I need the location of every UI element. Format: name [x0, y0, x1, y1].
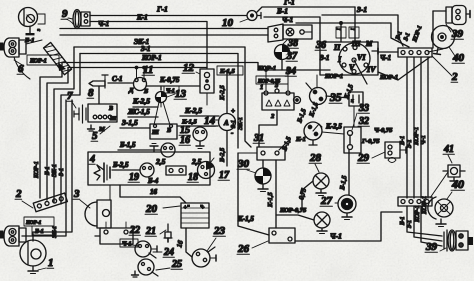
- relay 11: [134, 66, 147, 90]
- svg-text:з: з: [36, 29, 42, 32]
- label Б-1,5 rot (27): [339, 174, 349, 191]
- fuse box К: [349, 92, 363, 106]
- svg-text:З-1,5: З-1,5: [121, 118, 138, 127]
- wire 30 down: [238, 153, 269, 235]
- label ЭК-1,5: [127, 108, 150, 116]
- ignition plate: [320, 42, 378, 75]
- leader 33: [352, 113, 357, 130]
- horn 40 top: [432, 26, 455, 55]
- label 15: [179, 125, 190, 136]
- svg-text:Ч-1: Ч-1: [98, 20, 109, 28]
- svg-text:К-2,5: К-2,5: [219, 85, 226, 101]
- switch 23: [192, 247, 216, 267]
- label 32: [358, 116, 369, 127]
- label ЭК-1: [134, 38, 149, 46]
- label Г-1: [156, 5, 168, 14]
- wire 16 battery: [120, 185, 186, 203]
- switch box 30: [238, 141, 288, 160]
- svg-text:2: 2: [451, 71, 458, 83]
- svg-text:Ч-1: Ч-1: [330, 232, 342, 241]
- svg-text:3: 3: [73, 188, 80, 200]
- svg-text:13: 13: [175, 88, 187, 100]
- svg-text:Ч-1: Ч-1: [122, 242, 132, 248]
- spark plug 21: [164, 224, 172, 242]
- wire 30 right down: [275, 160, 277, 228]
- svg-text:41: 41: [443, 144, 454, 155]
- svg-text:23: 23: [213, 225, 226, 237]
- leader 12: [196, 72, 200, 74]
- connector 6 rear: [0, 226, 26, 246]
- svg-text:1: 1: [48, 257, 54, 269]
- ground 25: [132, 271, 139, 277]
- svg-text:З-1: З-1: [140, 45, 150, 53]
- label К-2,5 (14): [184, 106, 202, 115]
- svg-text:+: +: [184, 205, 188, 211]
- wire К-2,5 to ammeter: [180, 115, 219, 117]
- label 22: [129, 225, 140, 236]
- wire to headlamp 1a: [22, 100, 66, 236]
- svg-text:ЭК-1: ЭК-1: [52, 226, 58, 238]
- svg-text:А: А: [223, 119, 229, 127]
- svg-text:Б-1,5: Б-1,5: [119, 141, 136, 149]
- wire К-1 bus: [90, 22, 207, 69]
- generator 7: [74, 105, 86, 123]
- switch 24: [135, 241, 157, 258]
- resistor 18: [166, 166, 186, 175]
- label 37: [286, 51, 298, 62]
- socket 16: [161, 143, 175, 157]
- leader 6: [14, 60, 24, 66]
- wire КОР-1 fan: [378, 57, 430, 80]
- label К-1 (sw): [295, 136, 306, 143]
- leader 26: [252, 241, 268, 248]
- socket 15: [193, 127, 207, 149]
- svg-text:27: 27: [320, 195, 333, 207]
- svg-text:4: 4: [89, 154, 95, 165]
- svg-text:Б-2,5: Б-2,5: [112, 161, 129, 169]
- svg-text:2,5: 2,5: [155, 157, 166, 166]
- svg-text:ЭК-1: ЭК-1: [238, 117, 244, 130]
- leader 23: [207, 238, 216, 251]
- svg-text:8: 8: [88, 87, 94, 99]
- fuse 10: [247, 11, 261, 21]
- svg-text:З-1: З-1: [407, 220, 413, 228]
- label 24: [163, 247, 174, 258]
- boxed label Б-1 small: [164, 86, 179, 94]
- label 38: [287, 38, 298, 49]
- label З-1 vertical: [59, 168, 65, 176]
- headlamp 39 top: [433, 6, 470, 49]
- svg-text:37: 37: [286, 51, 298, 62]
- wire Г-1 bus: [90, 15, 246, 17]
- svg-text:К-2,5: К-2,5: [132, 97, 150, 106]
- hatched cable bar (loom): [44, 42, 72, 74]
- label 12: [182, 62, 195, 74]
- label 39 bottom: [425, 241, 438, 253]
- wire Ч-1 vert right: [427, 57, 429, 198]
- wire diag 13b: [163, 102, 173, 128]
- wire elbow КОР-1 down: [40, 63, 62, 199]
- label З-1 vr: [406, 139, 413, 148]
- label Б-1 (38): [276, 7, 288, 16]
- label К-1,5 (26): [237, 215, 254, 223]
- label 2,5 b: [191, 157, 202, 166]
- label К-1,5 rot b: [308, 101, 320, 119]
- label 19: [128, 172, 139, 183]
- leader 10: [240, 19, 248, 22]
- label 40 bottom: [451, 177, 464, 191]
- wire K box down: [353, 106, 355, 127]
- starter 3: [85, 185, 111, 228]
- label 36: [315, 40, 326, 51]
- svg-text:В: В: [108, 106, 113, 112]
- leader 39 bottom: [440, 248, 446, 251]
- svg-text:Б-1: Б-1: [45, 166, 51, 176]
- switch 35: [306, 83, 327, 105]
- svg-text:33: 33: [358, 103, 369, 114]
- label З-1 topright: [356, 5, 367, 14]
- socket 27: [338, 195, 356, 213]
- svg-text:К-1: К-1: [295, 136, 306, 143]
- svg-text:К-0,75: К-0,75: [159, 76, 180, 84]
- label 14: [203, 115, 216, 127]
- leader 2 left: [22, 201, 33, 208]
- svg-text:З-1: З-1: [319, 54, 329, 62]
- leader 14: [214, 119, 219, 121]
- label КОР-1 (36l): [324, 73, 343, 80]
- svg-text:17: 17: [219, 170, 230, 181]
- label Ч-1 bottom: [330, 232, 342, 241]
- fuse box 26: [269, 228, 295, 243]
- label 21: [145, 226, 156, 237]
- svg-text:КОР-1: КОР-1: [421, 196, 428, 215]
- svg-text:40: 40: [451, 177, 464, 191]
- svg-text:Б-2,5: Б-2,5: [219, 147, 226, 163]
- svg-text:КОР-1: КОР-1: [415, 205, 421, 223]
- wire Б-2,5 frame: [112, 169, 140, 171]
- svg-text:29: 29: [357, 152, 370, 164]
- label IV: [366, 65, 376, 74]
- leader 2 right: [432, 56, 452, 76]
- label 16 rot: [175, 239, 185, 248]
- wire Ч-1 fan: [428, 49, 443, 52]
- lamp 30: [255, 160, 271, 184]
- label VI: [357, 53, 366, 62]
- label Ч-1 vr: [420, 135, 427, 145]
- headlamp 1: [20, 240, 46, 274]
- wire battery minus down: [186, 228, 192, 257]
- leader 28: [315, 164, 319, 172]
- label Б-2,5 frame: [112, 161, 129, 169]
- svg-text:К-1: К-1: [136, 14, 148, 22]
- label 7: [66, 90, 73, 102]
- wire З-1 vert right: [413, 57, 415, 198]
- label 18: [187, 172, 198, 183]
- label 10: [221, 17, 234, 29]
- label Д: [128, 87, 134, 94]
- svg-text:К-1,5: К-1,5: [237, 215, 254, 223]
- label V: [349, 63, 355, 72]
- lamp 28: [313, 173, 329, 196]
- label Б-1 vertical: [45, 166, 51, 176]
- label КОР-0,75 (lamp): [279, 207, 307, 214]
- boxed label Б-1 rear: [32, 226, 54, 235]
- svg-text:III: III: [351, 40, 360, 48]
- wire К-1,5 to ammeter: [177, 125, 218, 127]
- fuse box 32-33: [344, 127, 361, 153]
- wire КОР-1 vert right: [420, 57, 422, 198]
- wire Ч-1 bus: [60, 28, 268, 30]
- label Б-1,5 rot2: [296, 107, 308, 124]
- label 9: [61, 8, 68, 20]
- wire Г-1 right of fuse: [257, 7, 355, 12]
- label Б-1,5 rot: [281, 135, 293, 152]
- svg-text:36: 36: [315, 40, 326, 51]
- svg-text:26: 26: [237, 243, 250, 255]
- ground 27: [342, 213, 352, 220]
- leader 39 top: [446, 24, 451, 32]
- svg-text:7: 7: [67, 90, 73, 102]
- switch 25: [138, 259, 158, 276]
- label К-2,5 mid: [132, 97, 150, 106]
- label К-2,5 (sw): [325, 123, 342, 131]
- wire Ч-1 bottom: [295, 212, 402, 241]
- label 2 left: [15, 188, 22, 200]
- svg-text:34: 34: [285, 66, 296, 77]
- label КОР-1 (41): [421, 196, 428, 215]
- svg-text:19: 19: [129, 172, 139, 183]
- svg-text:Б: Б: [143, 88, 148, 95]
- leader 9: [68, 18, 73, 19]
- ground 30: [258, 184, 268, 192]
- label Ч-1 top: [98, 20, 109, 28]
- wire Б-1 to 38: [264, 17, 320, 42]
- label tiny b: [350, 28, 355, 31]
- svg-text:5: 5: [92, 130, 98, 142]
- svg-text:VI: VI: [357, 53, 366, 62]
- lamp 37: [275, 39, 290, 60]
- svg-text:9: 9: [62, 8, 68, 20]
- svg-text:З-1: З-1: [406, 139, 413, 148]
- label 28: [309, 152, 322, 164]
- svg-text:32: 32: [358, 116, 369, 127]
- svg-text:ЭК-1: ЭК-1: [52, 164, 58, 177]
- coil 22 box: [95, 222, 139, 246]
- label Г-0,75: [361, 138, 380, 145]
- svg-text:Г-1: Г-1: [156, 5, 168, 14]
- label К-1,5 (14): [181, 119, 197, 126]
- ammeter 14: [219, 107, 236, 137]
- wire К-2,5 vertical: [226, 70, 228, 113]
- bracket near top-left lamp: [36, 14, 45, 32]
- label 29: [357, 152, 370, 164]
- label ЭК-1 mid rot: [238, 117, 244, 130]
- svg-text:К-2,5: К-2,5: [184, 106, 202, 115]
- svg-text:30: 30: [237, 158, 250, 170]
- label 23: [213, 225, 226, 237]
- label К-1,5 rot a: [343, 83, 355, 101]
- svg-text:V: V: [349, 63, 355, 72]
- label 8: [87, 87, 94, 99]
- relay 29: [385, 142, 406, 163]
- wire 34-2 down: [259, 110, 277, 147]
- label З-1 (36): [319, 54, 329, 62]
- label 6: [17, 63, 24, 75]
- ignition switch 36: [339, 43, 370, 84]
- label 5: [91, 130, 98, 142]
- wire КОР lamp: [276, 215, 314, 220]
- label 2,5 a: [155, 157, 166, 166]
- svg-text:14: 14: [204, 115, 216, 127]
- wire Б-1,5 row: [118, 149, 161, 151]
- wire З-1,5: [120, 127, 150, 129]
- svg-text:16: 16: [180, 135, 190, 146]
- label КОР-1 bus: [141, 54, 162, 62]
- label Б-2,5 vertical: [219, 147, 226, 163]
- svg-text:35: 35: [329, 92, 342, 104]
- svg-text:28: 28: [309, 152, 322, 164]
- svg-text:Д: Д: [128, 87, 134, 94]
- label Б-1 rot (fan): [395, 31, 404, 42]
- svg-text:II: II: [333, 43, 341, 52]
- svg-text:Ч-1: Ч-1: [282, 16, 293, 24]
- svg-text:Ч-1: Ч-1: [380, 54, 391, 62]
- wire С-1 to 11: [108, 82, 133, 84]
- leader 7: [72, 102, 76, 108]
- boxed label КОР-0,75: [256, 76, 288, 85]
- lamp with arrow (control lamp, top-left): [19, 8, 38, 36]
- wire ign b: [354, 7, 356, 42]
- svg-text:М: М: [365, 40, 373, 48]
- connector 9 (top): [66, 10, 90, 29]
- label З-1 rot (fan): [403, 32, 411, 42]
- boxed label К-1,5: [217, 66, 243, 75]
- svg-text:КОР-0,75: КОР-0,75: [279, 207, 307, 214]
- wire Б-1 fan: [378, 51, 398, 53]
- svg-text:2: 2: [15, 188, 22, 200]
- label Б-1,5 row: [119, 141, 136, 149]
- label 16 wire: [150, 188, 158, 196]
- connector strip top: [398, 48, 432, 57]
- svg-text:КОР-1: КОР-1: [29, 59, 47, 65]
- wire К-0,75: [146, 85, 200, 87]
- svg-text:16: 16: [150, 188, 158, 196]
- leader 37: [286, 54, 290, 55]
- headlamp 39 bottom: [444, 230, 473, 251]
- svg-text:КОР-1: КОР-1: [34, 161, 40, 179]
- ground above frame a: [150, 144, 158, 153]
- wire lower К bus: [68, 67, 207, 69]
- svg-text:IV: IV: [366, 65, 376, 74]
- label I: [337, 55, 342, 64]
- label М (36): [365, 40, 373, 48]
- wire К-2,5 mid: [133, 103, 161, 107]
- svg-text:11: 11: [143, 64, 153, 76]
- wire 27 up: [348, 150, 350, 195]
- wire elbow ЭК-1 down: [54, 47, 74, 202]
- wire Б-1 vert right: [406, 57, 408, 198]
- label Ч-1 (38): [282, 16, 293, 24]
- svg-text:В: В: [166, 128, 171, 134]
- leader 3: [80, 200, 90, 208]
- label 3: [73, 188, 80, 200]
- svg-text:КОР-1: КОР-1: [324, 73, 343, 80]
- label М regulator: [98, 126, 105, 133]
- wire 28 diag: [302, 181, 313, 208]
- label 30: [237, 158, 250, 170]
- label 39 top: [451, 28, 464, 40]
- svg-text:Ч-1: Ч-1: [166, 88, 175, 94]
- wire Ч-1 to 38: [296, 23, 409, 47]
- svg-text:ЖС-1,5: ЖС-1,5: [127, 108, 150, 116]
- switch below 35: [304, 122, 322, 145]
- lamp 41: [443, 165, 465, 181]
- wire diag 13a: [154, 102, 160, 128]
- fuse block 12: [200, 69, 214, 105]
- label З-1 low: [407, 220, 413, 228]
- label 34: [285, 66, 296, 77]
- label 0,75 rot: [298, 187, 308, 201]
- wire sw to 32: [322, 132, 344, 134]
- svg-text:КОР-1: КОР-1: [141, 54, 162, 62]
- svg-text:С-1: С-1: [112, 75, 123, 83]
- horn 40 bottom: [428, 197, 453, 227]
- small box above ign: [336, 27, 359, 38]
- label Ч-0,75: [374, 127, 393, 134]
- label 27: [320, 195, 333, 207]
- connector strip bottom: [398, 197, 432, 206]
- svg-text:КОР-1: КОР-1: [413, 127, 420, 146]
- temp gauge 17: [198, 158, 215, 179]
- label 4: [89, 154, 95, 165]
- svg-text:12: 12: [183, 62, 195, 74]
- label 40 top: [452, 52, 465, 64]
- svg-text:КОР-1: КОР-1: [379, 74, 398, 81]
- label Б-4: [147, 177, 159, 185]
- svg-text:Ш: Ш: [151, 130, 159, 136]
- svg-text:Ч-0,75: Ч-0,75: [374, 127, 393, 134]
- svg-text:Ч-1: Ч-1: [420, 135, 427, 145]
- label ЭК-1 vertical: [52, 164, 58, 177]
- label З-1,5: [121, 118, 138, 127]
- label Б: [143, 88, 148, 95]
- leader 29: [372, 152, 385, 158]
- battery 20: [181, 203, 209, 228]
- lamp КОР: [314, 212, 330, 234]
- boxed label Ч-1: [120, 239, 138, 248]
- svg-text:З-1: З-1: [59, 168, 65, 176]
- leader 1: [38, 268, 46, 270]
- label 20: [145, 203, 158, 215]
- leader 13: [167, 94, 175, 97]
- wire Б-1 upper bus: [60, 34, 268, 36]
- wire elbow Б-1 down: [47, 68, 68, 201]
- wire to 39 bottom a: [407, 206, 442, 236]
- leader 21: [160, 230, 166, 234]
- wire 35 to ign: [317, 75, 349, 98]
- leader 5: [100, 126, 110, 134]
- label З-1 mid rot: [231, 120, 237, 128]
- coil box: [150, 124, 177, 139]
- label Б-1 low: [400, 216, 406, 226]
- junction circle 34r: [294, 97, 301, 104]
- leader 40 bottom: [447, 192, 452, 199]
- label 33: [358, 103, 369, 114]
- wire to headlamp 1b: [33, 100, 72, 241]
- svg-text:10: 10: [222, 17, 234, 29]
- wire to 39 bottom b: [414, 206, 442, 241]
- connector 2: [33, 193, 67, 212]
